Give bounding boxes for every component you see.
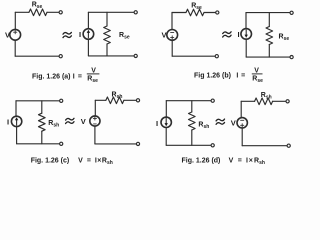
svg-text:Fig. 1.26 (c)V=I×Rsh: Fig. 1.26 (c)V=I×Rsh: [31, 157, 113, 166]
wire c-left, left vertical lower: [16, 127, 18, 144]
current source I (b-right, arrow down): [241, 29, 252, 40]
wire a-right, left vertical upper: [87, 12, 89, 29]
wire c-left, left vertical upper: [15, 101, 17, 117]
resistor Rse (b-right, shunt): [266, 27, 273, 45]
wire d-left, left vertical upper: [165, 101, 167, 118]
svg-text:V: V: [162, 31, 167, 40]
terminal a-left bottom: [59, 55, 62, 58]
wire d-right, left vertical lower: [241, 128, 243, 146]
caption (b) fraction bar: [252, 73, 263, 75]
wire c-right bottom: [95, 143, 136, 145]
voltage source V (a-left): [10, 29, 21, 40]
svg-text:I: I: [156, 119, 158, 128]
svg-text:Fig. 1.26 (d)V=I×Rsh: Fig. 1.26 (d)V=I×Rsh: [182, 157, 265, 166]
resistor Rsh (c-left, shunt): [39, 113, 46, 131]
wire b-right, left vertical lower: [245, 39, 247, 57]
wire b-left top: [172, 12, 186, 14]
wire b-left, left vertical upper: [171, 13, 173, 30]
wire a-right resistor top lead: [106, 12, 108, 26]
approx symbol (d): [216, 119, 224, 124]
polarity plus (c-right V top): [93, 117, 96, 120]
wire b-right top: [246, 12, 290, 14]
wire d-left bottom: [166, 144, 211, 146]
svg-text:Rse: Rse: [87, 75, 98, 84]
svg-text:Rse: Rse: [119, 32, 130, 41]
wire c-left bottom: [17, 143, 60, 145]
wire d-right, left vertical upper: [240, 101, 242, 117]
wire c-right top to terminal: [124, 99, 136, 101]
voltage source V (d-right, reversed): [237, 118, 247, 128]
svg-text:Rsh: Rsh: [48, 120, 59, 129]
resistor Rsh (d-left, shunt): [189, 112, 196, 130]
svg-text:V: V: [254, 67, 259, 74]
wire a-left top to terminal: [47, 11, 59, 13]
terminal d-right top: [286, 100, 289, 103]
wire b-right resistor bottom lead: [268, 45, 270, 58]
svg-text:I: I: [7, 118, 9, 127]
wire d-right top to terminal: [273, 100, 286, 102]
svg-text:Rse: Rse: [279, 34, 290, 43]
wire c-right, left vertical upper: [94, 100, 96, 116]
resistor Rse (a-left, series): [29, 9, 47, 16]
terminal d-left top: [211, 99, 214, 102]
wire c-right, left vertical lower: [94, 126, 96, 144]
polarity plus (d-right V bottom): [241, 124, 244, 127]
wire c-left resistor bottom lead: [41, 131, 43, 144]
terminal b-right bottom: [290, 56, 293, 59]
wire c-left resistor top lead: [41, 101, 43, 113]
terminal c-left top: [60, 99, 63, 102]
polarity minus (d-right V top): [241, 119, 244, 121]
wire d-left top: [166, 100, 211, 102]
approx symbol (c): [66, 118, 74, 123]
wire d-left resistor top lead: [191, 101, 193, 112]
svg-text:Fig. 1.26 (a)I=: Fig. 1.26 (a)I=: [32, 73, 82, 80]
svg-text:Rse: Rse: [32, 2, 43, 11]
terminal b-left top: [216, 11, 219, 14]
polarity minus (b-left V top): [171, 31, 174, 33]
wire a-right resistor bottom lead: [106, 44, 108, 56]
voltage source V (c-right): [90, 116, 100, 126]
approx symbol (b): [223, 32, 231, 37]
wire b-right bottom: [246, 56, 290, 58]
terminal c-right bottom: [136, 142, 139, 145]
wire a-left, left vertical lower: [14, 40, 16, 56]
wire b-left bottom: [172, 55, 215, 57]
svg-text:Rsh: Rsh: [198, 122, 209, 131]
wire b-right resistor top lead: [268, 13, 270, 27]
wire c-left top: [16, 100, 60, 102]
svg-text:Fig 1.26 (b)I=: Fig 1.26 (b)I=: [194, 72, 245, 79]
terminal a-right bottom: [134, 54, 137, 57]
resistor Rse (a-right, shunt): [104, 26, 111, 44]
wire b-left, left vertical lower: [171, 40, 173, 56]
voltage source V (b-left, reversed): [167, 30, 178, 41]
svg-text:V: V: [81, 117, 86, 126]
polarity minus (c-right V bottom): [94, 123, 97, 125]
svg-text:I: I: [79, 30, 81, 39]
polarity plus (b-left V bottom): [171, 36, 174, 39]
svg-text:V: V: [231, 119, 236, 128]
wire a-right, left vertical lower: [87, 39, 89, 56]
wire d-right bottom: [242, 145, 287, 147]
current source I (a-right, arrow up): [83, 29, 94, 40]
approx symbol (a): [63, 32, 71, 37]
terminal a-left top: [59, 11, 62, 14]
terminal c-right top: [136, 99, 139, 102]
svg-text:I: I: [238, 30, 240, 39]
wire b-left top to terminal: [204, 12, 216, 14]
terminal a-right top: [134, 11, 137, 14]
wire d-left, left vertical lower: [165, 128, 167, 146]
wire b-right, left vertical upper: [245, 13, 247, 29]
polarity plus (a-left V top): [14, 31, 17, 34]
wire c-right top lead: [95, 99, 106, 101]
terminal d-left bottom: [211, 144, 214, 147]
wire d-left resistor bottom lead: [191, 130, 193, 145]
terminal b-right top: [290, 11, 293, 14]
wire a-right bottom: [88, 55, 134, 57]
resistor Rsh (c-right, series): [106, 97, 124, 104]
resistor Rsh (d-right, series): [255, 98, 273, 105]
terminal d-right bottom: [287, 144, 290, 147]
wire a-right top: [88, 11, 134, 13]
current source I (d-left, arrow down): [161, 117, 171, 127]
terminal c-left bottom: [60, 142, 63, 145]
svg-text:Rse: Rse: [252, 75, 263, 84]
terminal b-left bottom: [215, 55, 218, 58]
caption (a) fraction bar: [87, 73, 100, 75]
wire a-left bottom: [15, 55, 59, 57]
current source I (c-left, arrow up): [11, 116, 21, 126]
wire a-left top: [15, 11, 29, 13]
wire a-left, left vertical upper: [14, 12, 16, 29]
svg-text:V: V: [91, 67, 96, 74]
svg-text:V: V: [5, 31, 10, 40]
wire d-right top lead: [241, 100, 254, 102]
resistor Rse (b-left, series): [186, 9, 204, 16]
